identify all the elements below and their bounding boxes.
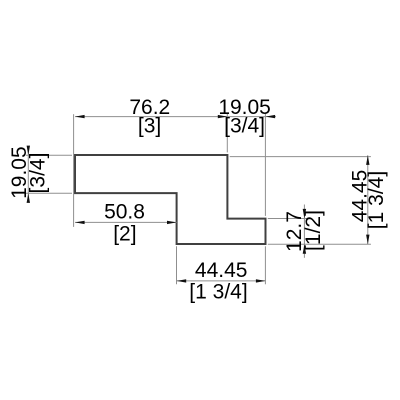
arrow bottom 44.45 left (tip 176.6,280.9 pointing left) — [177, 279, 187, 282]
arrow 76.2 left (tip at 75,116.6 pointing left) — [75, 115, 85, 118]
ext line bottom 44.45 left x=176.5 — [176, 246, 178, 284]
left dim 19.05: ext line bottom y=193.3 — [26, 192, 72, 194]
ext line left (x=73.6, serves dim 76.2 top and dim 50.8) — [73, 114, 75, 227]
dim line 50.8 y=222.4 — [75, 221, 177, 223]
arrow bottom 44.45 right (tip 265.5,280.9 pointing right) — [256, 279, 266, 282]
left dim 19.05: ext line top y=155.2 — [26, 154, 72, 156]
arrow right 44.45 top (tip 367.8,155.3 pointing up) — [366, 155, 369, 165]
svg-text:50.8: 50.8 — [104, 200, 145, 223]
ext line at D x=265.5 (right end of dim 19.05 top) — [264, 113, 266, 216]
arrow left-dim top (tip 28.3,155.2 pointing down, body above) — [27, 146, 30, 156]
arrow 50.8 right (tip 176.6,222.4 pointing right) — [167, 221, 177, 224]
svg-text:[1 3/4]: [1 3/4] — [189, 280, 247, 303]
arrow 12.7 top (tip 304.4,218.5 pointing down, body above) — [303, 209, 306, 219]
arrow left-dim bottom (tip 28.3,193.3 pointing up, body below) — [27, 193, 30, 203]
svg-text:[3]: [3] — [138, 115, 161, 138]
ext line bottom 44.45 right x=265.4 — [264, 246, 266, 284]
svg-text:[1/2]: [1/2] — [302, 210, 325, 251]
svg-text:[2]: [2] — [113, 223, 136, 246]
arrow 50.8 left (tip 75,222.4 pointing left) — [75, 221, 85, 224]
ext line 12.7 top y=218.5 — [268, 218, 309, 220]
arrow 12.7 bottom (tip 304.4,244.2 pointing up, body below) — [303, 244, 306, 254]
profile outline (Z-shaped moulding cross-section) — [75, 155, 266, 244]
dim line bottom 44.45 y=280.9 — [177, 280, 266, 282]
arrow at 227.4,116.6 pointing right — [218, 115, 228, 118]
svg-text:44.45: 44.45 — [195, 259, 248, 282]
shared ext line bottom y=244.2 (12.7 and right 44.45) — [268, 243, 371, 245]
ext line at B x=227.4 (serves dim 76.2 and dim 19.05 top) — [226, 113, 228, 152]
dim line 12.7 x=304.4 — [303, 205, 305, 258]
dim line top y=116.6 (dims 76.2 and 19.05 with outside tails) — [75, 116, 276, 118]
svg-text:[1 3/4]: [1 3/4] — [365, 171, 388, 229]
arrow at 265.5,116.6 pointing left (outside arrow of 19.05) — [266, 115, 276, 118]
svg-text:[3/4]: [3/4] — [27, 153, 50, 194]
ext line right 44.45 top y=156.6 — [230, 156, 371, 158]
arrow right 44.45 bottom (tip 367.8,244.2 pointing down) — [366, 235, 369, 245]
left dim line x=28.3 — [27, 146, 29, 202]
svg-text:[3/4]: [3/4] — [224, 115, 265, 138]
dim line right 44.45 x=367.8 — [367, 155, 369, 244]
